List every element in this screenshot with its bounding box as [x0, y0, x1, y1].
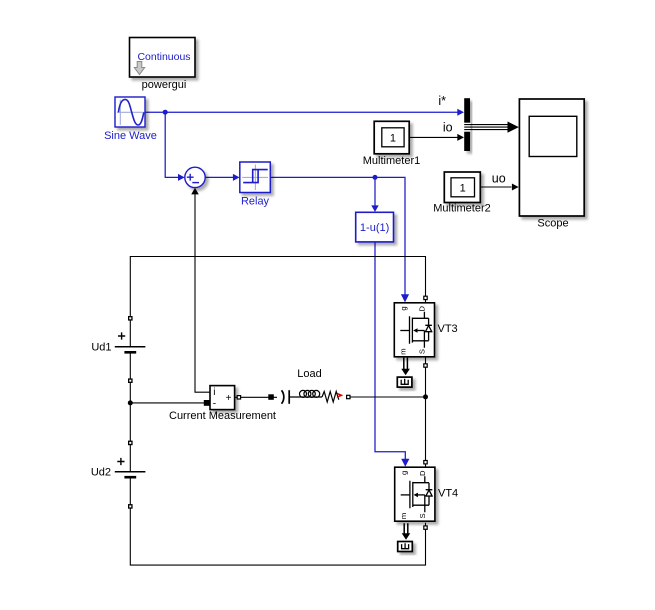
port square Ud1 plus stub	[128, 316, 133, 321]
wire relay output to VT3 gate	[271, 177, 406, 295]
arrowhead i* into mux	[457, 109, 464, 116]
wire node B down to Fcn block 1-u(1)	[374, 177, 376, 206]
arrowhead into sum from sine branch	[178, 174, 185, 181]
Relay block	[240, 162, 270, 193]
measurement signal VT4 m to terminator (double line)	[404, 523, 408, 534]
sine wave icon curve	[118, 99, 143, 125]
node C junction dot VT3-source / load / VT4-collector	[423, 394, 428, 399]
wire Ud1 minus to Ud2 plus (battery midpoint)	[129, 352, 131, 472]
port square Ud1 minus stub	[128, 378, 133, 383]
drain rail and D connection	[412, 312, 428, 319]
wire Load output to node C	[351, 396, 426, 398]
wire VT3 source down through node C to VT4 collector	[425, 357, 427, 467]
Multimeter2 block	[444, 172, 480, 203]
svg-text:uo: uo	[492, 172, 506, 186]
svg-text:Load: Load	[297, 368, 321, 380]
node D junction dot at battery midpoint	[128, 400, 133, 405]
svg-text:VT3: VT3	[438, 323, 458, 335]
arrowhead into Fcn 1-u(1)	[371, 205, 378, 212]
wire mux output to Scope (wide 3-line signal)	[465, 125, 511, 130]
svg-text:Continuous: Continuous	[137, 51, 190, 63]
WIRES-LAYER	[130, 112, 511, 565]
big arrowhead into VT4 gate	[401, 459, 409, 467]
filled port square current-measurement minus input	[204, 400, 210, 406]
mosfet body arrow	[413, 328, 417, 333]
svg-text:Multimeter2: Multimeter2	[433, 203, 490, 215]
terminator block T2	[398, 542, 413, 552]
port square current-measurement plus output	[237, 395, 242, 400]
svg-text:Ud2: Ud2	[91, 467, 111, 479]
svg-text:Multimeter1: Multimeter1	[363, 155, 420, 167]
svg-text:VT4: VT4	[438, 488, 458, 500]
source rail and S connection	[412, 331, 428, 348]
wire Ud2 minus along bottom to VT4 source	[130, 477, 425, 565]
svg-text:Relay: Relay	[241, 196, 270, 208]
svg-text:S: S	[418, 349, 427, 354]
wire Multimeter2 output to Scope (signal uo)	[480, 186, 511, 188]
BLOCKS-LAYER	[115, 38, 584, 552]
big arrowhead into VT3 gate	[401, 294, 409, 302]
port square VT4 collector stub	[423, 460, 428, 465]
capacitor	[282, 390, 284, 403]
svg-text:i: i	[213, 387, 215, 398]
arrowhead into relay	[233, 174, 240, 181]
svg-text:g: g	[399, 306, 408, 310]
series RLC branch Load	[282, 390, 339, 404]
inductor coil	[300, 390, 307, 397]
node B junction dot on relay output	[373, 175, 378, 180]
Mux block (black bar)	[464, 98, 470, 151]
scope screen	[529, 116, 577, 156]
svg-text:io: io	[443, 121, 453, 135]
DC source Ud2 (battery)	[115, 458, 146, 477]
PORTS-LAYER	[128, 109, 519, 530]
wire 1-u(1) output to VT4 gate	[375, 242, 405, 460]
svg-text:-: -	[213, 398, 216, 409]
TEXT-LAYER	[91, 79, 569, 500]
red flow arrow on load	[336, 393, 343, 399]
body line with arrow	[417, 330, 425, 332]
terminator block T1	[397, 377, 412, 387]
measurement signal VT3 m to terminator (double line)	[404, 358, 408, 370]
DC source Ud1 (battery)	[115, 332, 146, 352]
arrowhead io into mux	[457, 134, 464, 141]
svg-text:1-u(1): 1-u(1)	[360, 222, 389, 234]
port labels g D m S (rotated)	[399, 306, 427, 355]
svg-text:+: +	[226, 393, 232, 404]
wire branch from node A down to sum	[165, 112, 181, 177]
wire sum output to relay	[205, 176, 236, 178]
sum block (circle with + -)	[185, 167, 205, 187]
svg-text:1: 1	[460, 183, 466, 195]
Sine Wave block	[115, 97, 145, 127]
port square Ud2 plus stub	[128, 441, 133, 446]
Fcn block 1-u(1)	[356, 212, 394, 242]
mosfet gate lead	[400, 330, 409, 332]
Scope block	[519, 99, 584, 216]
svg-text:D: D	[418, 306, 427, 312]
port square VT3 source stub	[423, 363, 428, 368]
resistor zigzag	[322, 392, 339, 403]
port square Ud2 minus stub	[128, 504, 133, 509]
svg-text:Sine Wave: Sine Wave	[104, 130, 157, 142]
svg-text:m: m	[399, 348, 408, 354]
Current Measurement block	[210, 386, 235, 410]
internal diode	[425, 318, 432, 341]
svg-text:i*: i*	[438, 94, 446, 108]
port square VT4 source stub	[423, 525, 428, 530]
wire sine-wave output to mux (signal i*)	[145, 111, 461, 113]
wire current-measurement plus output to Load	[235, 396, 277, 398]
IGBT/MOSFET VT3	[394, 303, 434, 357]
IGBT/MOSFET VT4 (copy of VT3 icon)	[395, 467, 435, 521]
port square VT3 collector stub	[423, 296, 428, 301]
wire Multimeter1 output to mux (signal io)	[409, 136, 461, 138]
svg-text:Current Measurement: Current Measurement	[169, 410, 276, 422]
Multimeter1 block	[374, 121, 409, 154]
node A junction dot on sine output	[163, 110, 168, 115]
port square Load output	[346, 395, 351, 400]
mosfet gate and channel bars	[410, 316, 413, 344]
arrowhead uo into Scope	[512, 184, 519, 191]
svg-text:powergui: powergui	[142, 79, 187, 91]
svg-text:Scope: Scope	[537, 218, 568, 230]
wire Ud1 plus terminal up and across to VT3 collector	[130, 257, 425, 347]
powergui gray arrow icon	[134, 62, 144, 75]
wire current-measurement i output feedback to sum	[195, 193, 210, 393]
relay hysteresis icon	[243, 170, 268, 183]
big arrowhead mux wide signal into Scope	[508, 122, 519, 133]
filled port square Load input	[268, 394, 274, 400]
powergui block	[130, 38, 196, 78]
wire battery midpoint to current-measurement minus input	[130, 402, 206, 404]
arrowhead feedback into sum bottom	[191, 188, 199, 195]
svg-text:Ud1: Ud1	[91, 342, 111, 354]
svg-text:1: 1	[390, 133, 396, 145]
